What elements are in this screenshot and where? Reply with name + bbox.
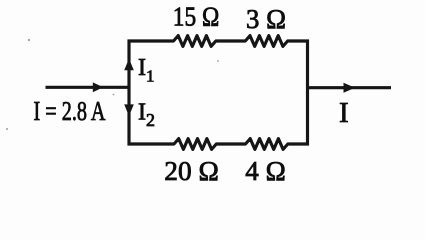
svg-text:15 Ω: 15 Ω bbox=[173, 2, 220, 32]
arrowhead output current bbox=[344, 83, 356, 93]
wire top branch with resistor zigzags bbox=[128, 36, 310, 47]
svg-text:I: I bbox=[339, 97, 349, 129]
arrowhead I2 down bbox=[124, 104, 134, 116]
wire bottom branch with resistor zigzags bbox=[128, 139, 310, 150]
speck bbox=[113, 94, 115, 96]
arrowhead I1 up bbox=[124, 59, 134, 71]
svg-text:I = 2.8 A: I = 2.8 A bbox=[34, 96, 106, 126]
speck bbox=[28, 39, 30, 41]
wire right vertical branch bbox=[306, 40, 309, 146]
svg-text:20 Ω: 20 Ω bbox=[164, 156, 219, 186]
speck bbox=[6, 128, 8, 130]
wire input lead bbox=[46, 86, 130, 89]
arrowhead input current bbox=[93, 82, 103, 92]
wire output lead bbox=[308, 86, 392, 89]
speck bbox=[217, 60, 219, 62]
svg-text:4 Ω: 4 Ω bbox=[245, 156, 286, 186]
wire left vertical branch bbox=[127, 40, 130, 146]
svg-text:3 Ω: 3 Ω bbox=[246, 4, 286, 34]
